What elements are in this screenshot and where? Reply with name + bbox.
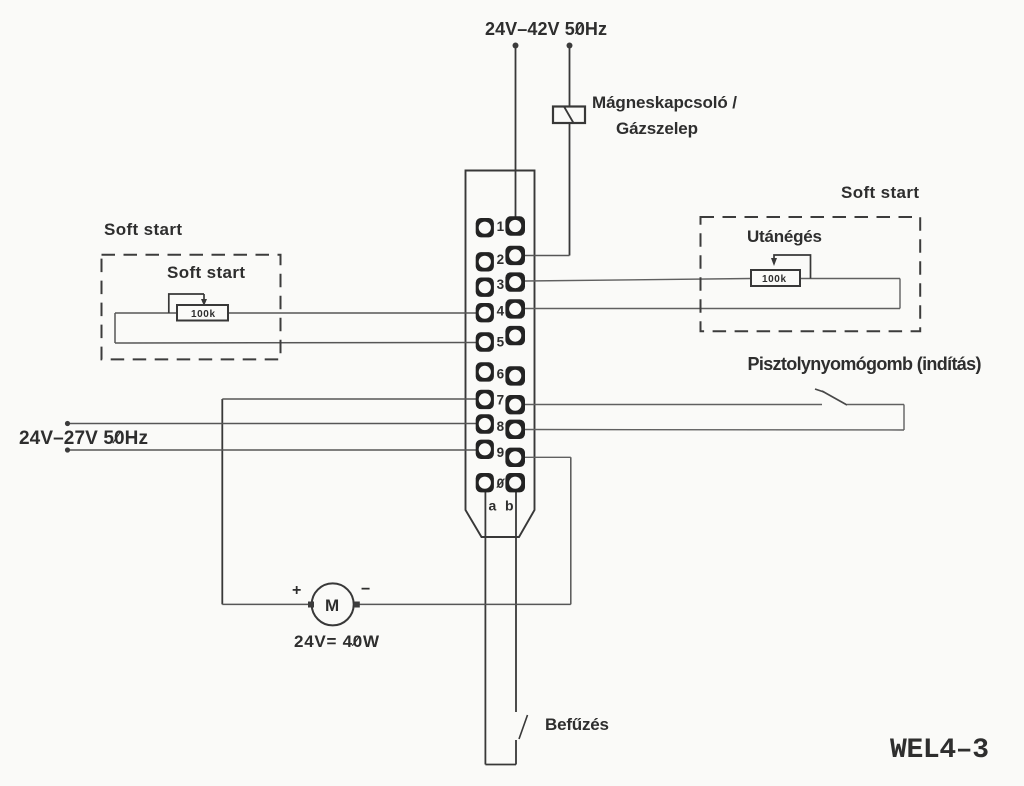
svg-text:b: b: [505, 498, 514, 514]
svg-text:3: 3: [497, 277, 505, 292]
svg-text:Utánégés: Utánégés: [747, 227, 822, 246]
svg-text:24V–42V 50Hz: 24V–42V 50Hz: [485, 19, 607, 39]
svg-text:24V–27V 50Hz: 24V–27V 50Hz: [19, 428, 148, 449]
svg-text:Pisztolynyomógomb (indítás): Pisztolynyomógomb (indítás): [748, 354, 982, 374]
svg-text:−: −: [361, 581, 370, 598]
svg-text:M: M: [325, 596, 339, 615]
svg-text:4: 4: [497, 303, 505, 318]
svg-text:24V= 40W: 24V= 40W: [294, 632, 380, 651]
svg-text:Befűzés: Befűzés: [545, 715, 609, 734]
svg-text:5: 5: [497, 335, 505, 350]
svg-text:100k: 100k: [191, 309, 215, 320]
svg-text:+: +: [292, 582, 301, 599]
svg-text:2: 2: [497, 252, 505, 267]
svg-text:6: 6: [497, 367, 505, 382]
svg-text:Mágneskapcsoló /: Mágneskapcsoló /: [592, 93, 737, 112]
svg-text:Soft start: Soft start: [167, 263, 245, 282]
svg-text:8: 8: [497, 419, 505, 434]
svg-text:Gázszelep: Gázszelep: [616, 119, 698, 138]
svg-text:Soft start: Soft start: [841, 183, 919, 202]
svg-text:WEL4–3: WEL4–3: [890, 735, 989, 766]
svg-text:100k: 100k: [762, 274, 786, 285]
svg-text:Soft start: Soft start: [104, 220, 182, 239]
svg-text:9: 9: [497, 445, 505, 460]
svg-text:7: 7: [497, 393, 505, 408]
svg-text:a: a: [489, 498, 497, 514]
svg-text:1: 1: [497, 219, 505, 234]
